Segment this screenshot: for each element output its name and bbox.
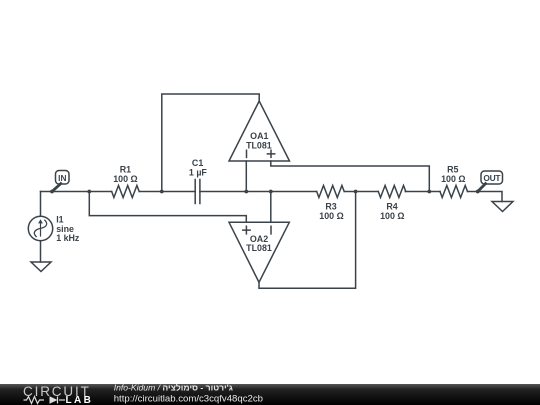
resistor R5 (440, 186, 468, 198)
svg-text:IN: IN (58, 173, 66, 183)
wire OA2 minus input to main line (270, 192, 272, 223)
resistor R4 (378, 186, 406, 198)
label R4 value (380, 201, 404, 221)
resistor R1 (112, 186, 140, 198)
wire OA1 minus input to main line (245, 161, 247, 192)
source I1 (28, 216, 52, 240)
node OUT attach (476, 190, 480, 194)
svg-text:100 Ω: 100 Ω (113, 174, 137, 184)
terminal OUT (478, 171, 503, 192)
wire IN node down to source I1 (40, 192, 42, 217)
label R3 value (319, 201, 343, 221)
svg-text:R4: R4 (386, 201, 397, 211)
OA2 plus input marker (243, 226, 250, 234)
svg-text:1 kHz: 1 kHz (56, 233, 80, 243)
OA1 plus input marker (267, 150, 274, 157)
footer bar (0, 384, 540, 405)
wire OA2 output feedback to R3 R4 node (259, 192, 356, 289)
wire R3 to R4 (345, 191, 379, 193)
node IN attach (50, 190, 54, 194)
svg-text:100 Ω: 100 Ω (441, 174, 465, 184)
resistor R3 (317, 186, 345, 198)
wire I1 to ground (40, 241, 42, 262)
terminal IN (52, 171, 69, 192)
junction node dots (50, 190, 480, 194)
svg-text:TL081: TL081 (246, 243, 272, 253)
capacitor C1 (195, 180, 200, 204)
ground left (31, 262, 51, 272)
label IN (58, 173, 66, 183)
label R5 value (441, 165, 465, 184)
wire main line left segment (41, 191, 112, 193)
wire OA1 plus input to R4 R5 node (271, 161, 430, 192)
label R1 value (113, 165, 137, 184)
wire lower branch to OA2 + input (89, 192, 246, 223)
op-amp OA1 (229, 101, 290, 161)
svg-text:100 Ω: 100 Ω (380, 211, 404, 221)
ground right (492, 202, 513, 212)
label I1 sine 1kHz (56, 215, 80, 243)
svg-text:R3: R3 (325, 201, 336, 211)
label OA2 TL081 (246, 234, 272, 253)
svg-text:OA1: OA1 (250, 131, 268, 141)
wire R5 to right corner (468, 192, 503, 202)
label C1 value (189, 158, 208, 177)
node OA1 minus (244, 190, 248, 194)
node R4 R5 (427, 190, 431, 194)
svg-text:http://circuitlab.com/c3cqfv48: http://circuitlab.com/c3cqfv48qc2cb (114, 393, 263, 404)
wire OA1 output feedback loop (162, 94, 259, 192)
svg-text:LAB: LAB (66, 395, 94, 405)
node branch split (87, 190, 91, 194)
node OA1 feedback (160, 190, 164, 194)
svg-text:OUT: OUT (483, 173, 501, 183)
op-amp OA2 (229, 222, 289, 282)
label OUT (483, 173, 501, 183)
svg-text:1 µF: 1 µF (189, 167, 208, 177)
logo CircuitLab (23, 384, 93, 405)
OA1 minus input marker (246, 150, 248, 157)
wire R1 to C1 (140, 191, 196, 193)
svg-text:TL081: TL081 (246, 141, 272, 151)
svg-text:Info-Kidum / ג'ירטור - סימולצי: Info-Kidum / ג'ירטור - סימולציה (114, 383, 233, 393)
wire C1 to R3 (200, 191, 317, 193)
svg-text:100 Ω: 100 Ω (319, 211, 343, 221)
node OA2 minus (269, 190, 273, 194)
OA2 minus input marker (270, 226, 272, 234)
label OA1 TL081 (246, 131, 272, 151)
node R3 R4 (354, 190, 358, 194)
footer credit text (114, 383, 263, 405)
wire R4 to R5 (405, 191, 440, 193)
